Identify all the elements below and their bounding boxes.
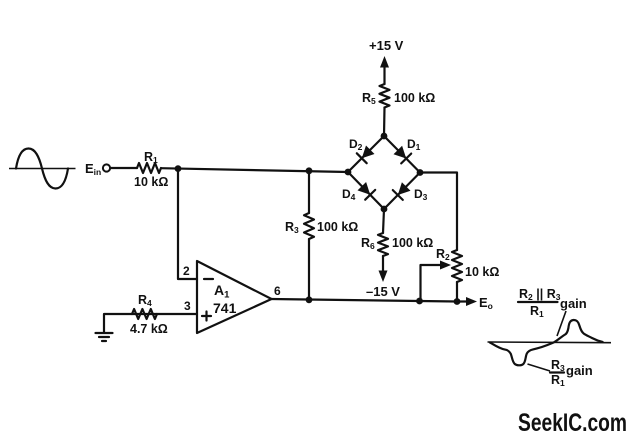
diode D1: [394, 146, 412, 164]
wire diamond bottom to R6: [383, 209, 384, 233]
svg-text:SeekIC.com: SeekIC.com: [518, 409, 627, 437]
svg-text:100 kΩ: 100 kΩ: [394, 91, 435, 105]
wire R3 bottom: [308, 239, 310, 300]
svg-text:gain: gain: [560, 296, 587, 311]
node diamond left: [345, 169, 352, 176]
node diamond right: [417, 169, 424, 176]
R2 wiper arrow: [421, 261, 452, 302]
svg-text:–15 V: –15 V: [366, 284, 400, 299]
-15V supply arrow: [382, 256, 384, 272]
wire R3 top: [308, 171, 310, 213]
potentiometer R2: [452, 250, 462, 282]
diode D4: [358, 182, 376, 200]
svg-text:10 kΩ: 10 kΩ: [134, 175, 168, 189]
node diamond top: [381, 133, 388, 140]
ground symbol: [96, 333, 113, 341]
node diamond bottom: [381, 206, 388, 213]
wire Ein terminal to R1: [111, 167, 138, 169]
svg-text:741: 741: [213, 300, 237, 316]
gain fraction R2||R3 over R1: [518, 287, 587, 319]
diode bridge diamond wires: [348, 136, 420, 209]
wire diamond right node to R2 top: [420, 173, 457, 251]
node junction output-R3: [306, 296, 313, 303]
resistor R1: [137, 163, 161, 173]
wire feedback down to pin 2: [178, 169, 197, 279]
node junction J1 feedback tap: [175, 165, 182, 172]
input sine wave symbol: [9, 149, 76, 189]
wire R2 bottom to output line: [456, 282, 458, 302]
wire ground to pin 3: [104, 314, 197, 332]
output arrow: [457, 300, 467, 302]
terminal circle Ein: [103, 164, 110, 171]
+15V supply arrow: [383, 66, 385, 84]
svg-text:2: 2: [183, 264, 190, 278]
gain fraction R3 over R1: [550, 358, 593, 388]
resistor R6: [378, 233, 388, 256]
wire op-amp output to Eo: [272, 299, 458, 302]
wire R1 to diamond left node: [161, 168, 348, 172]
output waveform curve: [490, 320, 603, 365]
svg-text:gain: gain: [566, 363, 593, 378]
resistor R5: [380, 84, 390, 108]
op-amp U1 triangle (A1 741): [197, 261, 272, 333]
node junction R3 top: [306, 167, 313, 174]
svg-text:6: 6: [274, 284, 281, 298]
output waveform baseline: [488, 341, 612, 344]
leader line to positive hump: [557, 311, 566, 336]
op-amp minus sign: [204, 278, 213, 280]
resistor R3: [304, 213, 314, 239]
node junction output-wiper: [416, 298, 423, 305]
op-amp plus sign: [202, 312, 211, 321]
diode D3: [393, 182, 411, 200]
svg-text:+15 V: +15 V: [369, 38, 404, 53]
svg-text:100 kΩ: 100 kΩ: [317, 220, 358, 234]
svg-text:4.7 kΩ: 4.7 kΩ: [130, 322, 168, 336]
wire R5 to diamond top node: [383, 108, 386, 137]
resistor R4: [132, 309, 157, 319]
svg-text:100 kΩ: 100 kΩ: [392, 236, 433, 250]
svg-text:10 kΩ: 10 kΩ: [465, 265, 499, 279]
svg-text:3: 3: [184, 299, 191, 313]
node junction output-R2: [454, 298, 461, 305]
leader line to negative notch: [528, 364, 551, 371]
diode D2: [357, 146, 375, 164]
svg-text:R2 || R3: R2 || R3: [519, 287, 561, 302]
